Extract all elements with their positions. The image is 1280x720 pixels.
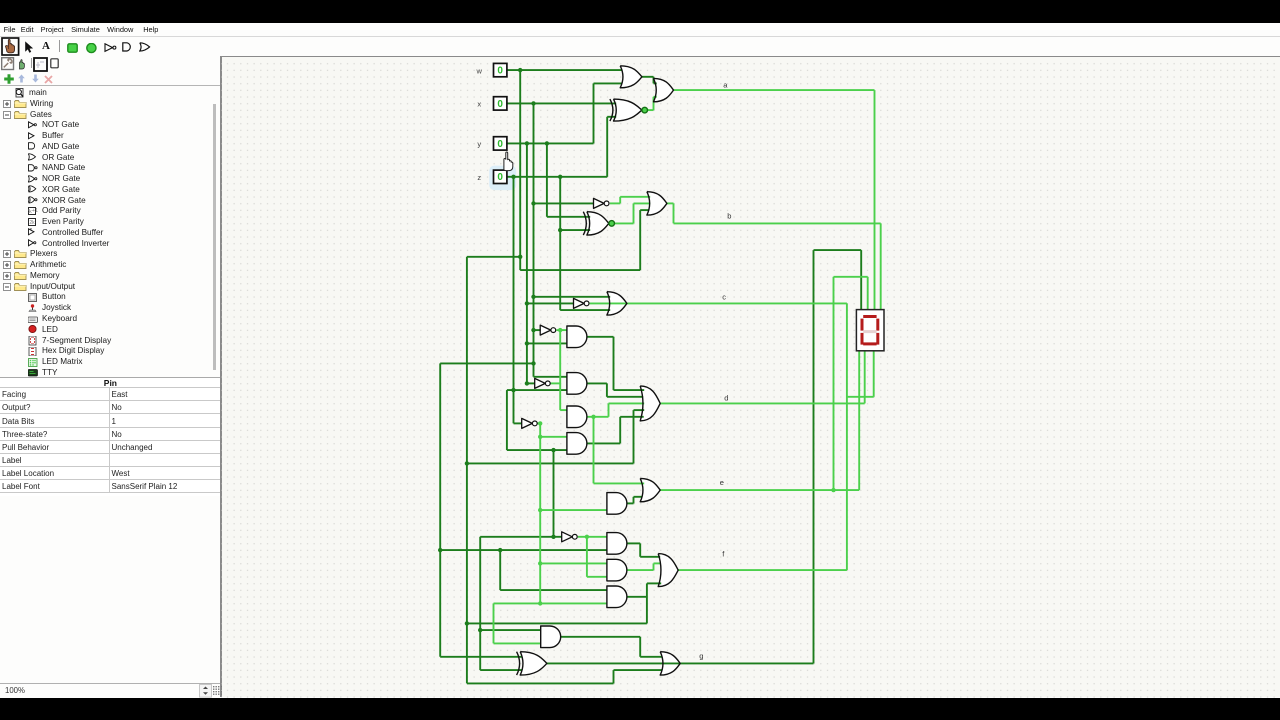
wire into OR7 input2 [653, 562, 660, 564]
tree row NOT Gate [0, 119, 210, 130]
wire into OR5 input1 [613, 389, 644, 391]
not-gate NOT2 [573, 298, 589, 308]
xor-gate XOR2 [516, 652, 546, 675]
canvas dotted grid [221, 58, 1280, 698]
toolbar: output pin tool [86, 43, 98, 55]
wire d riser to display [863, 351, 865, 403]
wire AND1 output [587, 336, 614, 338]
tree row XOR Gate [0, 184, 210, 195]
wire into OR7 input1 [640, 556, 660, 558]
toolbar2: layout view box [33, 57, 49, 73]
wire e riser up [832, 277, 834, 490]
tree row Arithmetic [0, 259, 210, 270]
wire into AND3 input1 [560, 409, 567, 411]
wire into OR6 input2 [633, 496, 642, 498]
gate bodies fill [620, 66, 642, 88]
tree row Plexers [0, 248, 210, 259]
tree row NAND Gate [0, 162, 210, 173]
attribute row Facing [0, 387, 220, 400]
wire into AND9 input2 [493, 642, 540, 644]
and-gate AND2 [567, 372, 587, 394]
wire into OR5 input2 [607, 396, 643, 398]
tree row Even Parity [0, 216, 210, 227]
wire z bus down [479, 537, 481, 670]
zoom level 100% [5, 686, 25, 695]
mouse cursor (hand) [504, 152, 513, 171]
wire segment d [660, 402, 865, 404]
and-gate AND6 [607, 532, 627, 554]
wire z second trunk [559, 177, 561, 310]
wire riser to OR3 [639, 210, 641, 270]
wire AND9 output [560, 636, 640, 638]
wire NOT4 output [550, 382, 560, 384]
wire AND3 output [587, 416, 609, 418]
wire to XOR2 input2 [480, 669, 522, 671]
toolbar: OR gate tool [139, 42, 152, 53]
wire into AND4 input1 [540, 436, 567, 438]
wire to OR4 input3 [560, 309, 610, 311]
wire e top link [833, 276, 867, 278]
svg-text:w: w [475, 66, 482, 75]
wire jog up [652, 97, 654, 110]
svg-text:g: g [699, 651, 703, 660]
wire to AND9 input1 [480, 629, 541, 631]
wire jog [639, 637, 641, 657]
wire branch down to NOT6 line [552, 450, 554, 537]
wire to AND6 input2 [440, 549, 607, 551]
wire segment f [678, 569, 847, 571]
wire c-f riser [846, 303, 848, 570]
wire AND8 output [627, 596, 647, 598]
wire jog up [619, 417, 621, 444]
attribute row Pull Behavior [0, 440, 220, 453]
wire jog to display [847, 396, 874, 398]
wire z trunk down [512, 177, 514, 424]
wire NOT3 output to AND1 [556, 329, 567, 331]
tree row Hex Digit Display [0, 345, 210, 356]
not-gate NOT3 [540, 325, 555, 335]
tree row Buffer [0, 130, 210, 141]
attribute row Output? [0, 400, 220, 413]
wire g top link [813, 249, 861, 251]
wire segment e [660, 489, 859, 491]
wire y riser to OR1 [592, 83, 594, 143]
toolbar: text tool A [42, 40, 50, 52]
wire XNOR2 output [614, 222, 633, 224]
wire into OR6 input1 [593, 482, 644, 484]
tree row main [0, 87, 210, 98]
and-gate AND5 [607, 492, 627, 514]
wire into OR5 input5 [620, 416, 644, 418]
wire to AND4 input2 [507, 449, 567, 451]
tree row Keyboard [0, 313, 210, 324]
or-gate OR5 (segment d) [640, 386, 660, 421]
wire OR3 output [667, 202, 674, 204]
wire junction dots [438, 68, 562, 632]
wire jog [606, 383, 608, 396]
wire w trunk down [519, 70, 521, 270]
wire into OR1 input2 [593, 82, 622, 84]
wire riser to display bottom [872, 351, 874, 397]
wire into AND7 input1 [540, 562, 607, 564]
wire y to NOT4 [527, 382, 535, 384]
zoom spinner [199, 684, 212, 698]
or-gate OR2 (segment a output) [653, 78, 673, 101]
svg-text:0: 0 [497, 65, 503, 76]
and-gate AND3 [567, 406, 587, 428]
wire into OR7 input4 [647, 582, 661, 584]
wire z to NOT5 [513, 422, 521, 424]
wire y second trunk [546, 143, 548, 216]
wire g to display pin [860, 250, 862, 309]
wire b riser to display [879, 223, 881, 309]
wire w bottom run [467, 682, 614, 684]
wire down [612, 337, 614, 390]
wire jog up [632, 203, 634, 223]
wire XOR2 output / segment g [547, 662, 814, 664]
wire x to NOT1 [533, 202, 593, 204]
svg-text:b: b [727, 211, 731, 220]
toolbar: NOT gate tool [104, 43, 118, 54]
tree row Input/Output [0, 281, 210, 292]
tree row Wiring [0, 98, 210, 109]
wire NOT6 output [578, 536, 587, 538]
wire to XNOR2 input2 [560, 229, 590, 231]
wire into OR3 input2 [633, 202, 650, 204]
not-gate NOT1 [593, 198, 609, 208]
wire riser to OR5 [632, 410, 634, 463]
wire XNOR1 output [647, 109, 653, 111]
wire a riser to display [873, 90, 875, 309]
wire z branch down [506, 390, 508, 450]
toolbar3: delete x (disabled) [44, 75, 53, 84]
wire to NOT6 input [480, 536, 562, 538]
wire into OR3 input1 [620, 196, 650, 198]
wire y to NOT2 [527, 302, 574, 304]
wire into OR3 input3 [640, 209, 649, 211]
tree row Odd Parity [0, 205, 210, 216]
7-segment display [856, 309, 884, 350]
and-gate AND1 [567, 326, 587, 348]
wire AND7 output [627, 569, 654, 571]
wire NOT2/OR4 segment c [589, 302, 846, 304]
hover halo around pin z [489, 165, 516, 190]
attribute table header Pin [0, 378, 221, 388]
not-gate NOT5 [521, 418, 536, 428]
svg-text:0: 0 [497, 99, 503, 110]
grid toggle icon [213, 686, 222, 695]
svg-text:d: d [724, 393, 728, 402]
wire w lower branch [467, 622, 647, 624]
not-gate NOT4 [534, 378, 549, 388]
svg-text:0: 0 [497, 172, 503, 183]
wire to XNOR2 input1 [547, 216, 590, 218]
wire branch down [592, 417, 594, 484]
attribute row Label [0, 453, 220, 466]
attribute row Label Font [0, 479, 220, 492]
wire w branch left [467, 256, 520, 258]
wire x branch left [440, 362, 533, 364]
tree row Memory [0, 270, 210, 281]
or-gate OR8 (segment g) [660, 652, 680, 675]
not-gate NOT6 [561, 532, 576, 542]
svg-text:0: 0 [497, 139, 503, 150]
tree row AND Gate [0, 141, 210, 152]
attribute row Data Bits [0, 413, 220, 426]
input pin z [493, 170, 506, 183]
or-gate OR4 (segment c) [607, 292, 627, 315]
wire AND6 output [627, 542, 640, 544]
and-gate AND8 [607, 586, 627, 608]
tree row LED [0, 324, 210, 335]
and-gate AND9 [540, 626, 560, 648]
tree row OR Gate [0, 152, 210, 163]
wire x left bus down [439, 363, 441, 656]
toolbar2: appearance view icon [50, 58, 60, 69]
and-gate AND4 [567, 432, 587, 454]
wire AND5 output [627, 502, 634, 504]
wire x pin to XNOR1 [507, 102, 616, 104]
wire jog [619, 197, 621, 204]
toolbar2: poke hand icon [16, 58, 28, 70]
attribute row Label Location [0, 466, 220, 479]
wire w pin to OR1 input [507, 69, 622, 71]
svg-text:2k: 2k [29, 219, 35, 225]
toolbar3: add (+) [3, 73, 15, 85]
wire x to AND2 input1 [533, 376, 566, 378]
toolbar2: wrench box [1, 57, 15, 71]
tree row Joystick [0, 302, 210, 313]
input pin w [493, 63, 506, 76]
toolbar: poke tool selected [1, 37, 21, 57]
wire into AND5 input2 [540, 509, 607, 511]
wire jog [652, 77, 654, 84]
toolbar: input pin tool [67, 43, 79, 55]
wire into OR5 input3 [608, 402, 644, 404]
wire x trunk down [532, 103, 534, 376]
tree row Controlled Buffer [0, 227, 210, 238]
wire to XOR2 input1 [440, 656, 522, 658]
wire branch down [499, 550, 501, 590]
tree row NOR Gate [0, 173, 210, 184]
wire into AND8 input2 [493, 602, 606, 604]
svg-text:c: c [722, 292, 726, 301]
wire w to OR5 feed [467, 462, 634, 464]
input pin y [493, 137, 506, 150]
wire z riser [606, 117, 608, 177]
wire segment a [673, 89, 874, 91]
or-gate OR3 (segment b) [647, 192, 667, 215]
xnor-gate XNOR1 [610, 99, 648, 121]
wire into OR2 input2 [653, 96, 656, 98]
wire e to display pin [866, 277, 868, 309]
svg-text:2k+1: 2k+1 [28, 208, 38, 215]
wire into OR8 input1 [640, 656, 662, 658]
tree row Gates [0, 109, 210, 120]
wire AND2 output [587, 382, 607, 384]
wire NOT1 output [610, 202, 620, 204]
wire jog [639, 543, 641, 556]
wire branch down [586, 537, 588, 577]
wire to AND8 input1 [500, 589, 607, 591]
or-gate OR7 (segment f) [658, 553, 678, 586]
wire into AND7 input2 [587, 576, 607, 578]
tree row Controlled Inverter [0, 238, 210, 249]
svg-text:z: z [477, 173, 481, 182]
wire riser to OR7 [646, 583, 648, 623]
and-gate AND7 [607, 559, 627, 581]
wire y to AND1 input2 [527, 342, 567, 344]
svg-text:e: e [719, 478, 723, 487]
bright junction dots [538, 328, 836, 606]
wire x to NOT3 [533, 329, 540, 331]
wire x to OR4 input1 [533, 296, 610, 298]
attribute row Three-state? [0, 427, 220, 440]
wire g riser [812, 250, 814, 663]
wire NOT5 output [537, 422, 540, 424]
tree row XNOR Gate [0, 195, 210, 206]
xnor-gate XNOR2 [583, 212, 614, 235]
input pin x [493, 97, 506, 110]
svg-text:x: x [477, 100, 481, 109]
wire OR1 output [642, 76, 654, 78]
wire y trunk down [526, 143, 528, 383]
or-gate OR1 (segment a) [620, 66, 642, 88]
tree row LED Matrix [0, 356, 210, 367]
wire jog up [612, 670, 614, 683]
wire segment b [673, 222, 880, 224]
toolbar: AND gate tool [122, 42, 134, 53]
wire into OR2 input1 [653, 82, 656, 84]
wire e riser to display [858, 351, 860, 490]
wire into XNOR1 input2 [607, 116, 616, 118]
wire into OR8 input3 [613, 669, 662, 671]
wire y pin run [507, 142, 594, 144]
toolbar3: down arrow (disabled) [31, 74, 40, 83]
wire jog down [672, 203, 674, 223]
wire into AND6 input1 [587, 536, 607, 538]
wire bright bus [559, 330, 561, 410]
wire to AND2 input2 [507, 389, 567, 391]
tree row Button [0, 291, 210, 302]
wire into OR5 input4 [633, 409, 644, 411]
svg-text:y: y [477, 140, 481, 149]
wire branch down [492, 603, 494, 643]
wire jog [632, 497, 634, 504]
wire jog up [652, 563, 654, 570]
wire jog up [607, 403, 609, 416]
wire w left bus down [466, 257, 468, 684]
wire z pin run [507, 176, 607, 178]
toolbar: select arrow [24, 41, 37, 54]
wire bright bus 2 [539, 423, 541, 603]
tree row TTY [0, 367, 210, 378]
or-gate OR6 (segment e) [640, 478, 660, 501]
toolbar3: up arrow (disabled) [17, 74, 26, 83]
wire AND4 output [587, 442, 620, 444]
tree row 7-Segment Display [0, 335, 210, 346]
wire w to OR3 riser [520, 269, 640, 271]
